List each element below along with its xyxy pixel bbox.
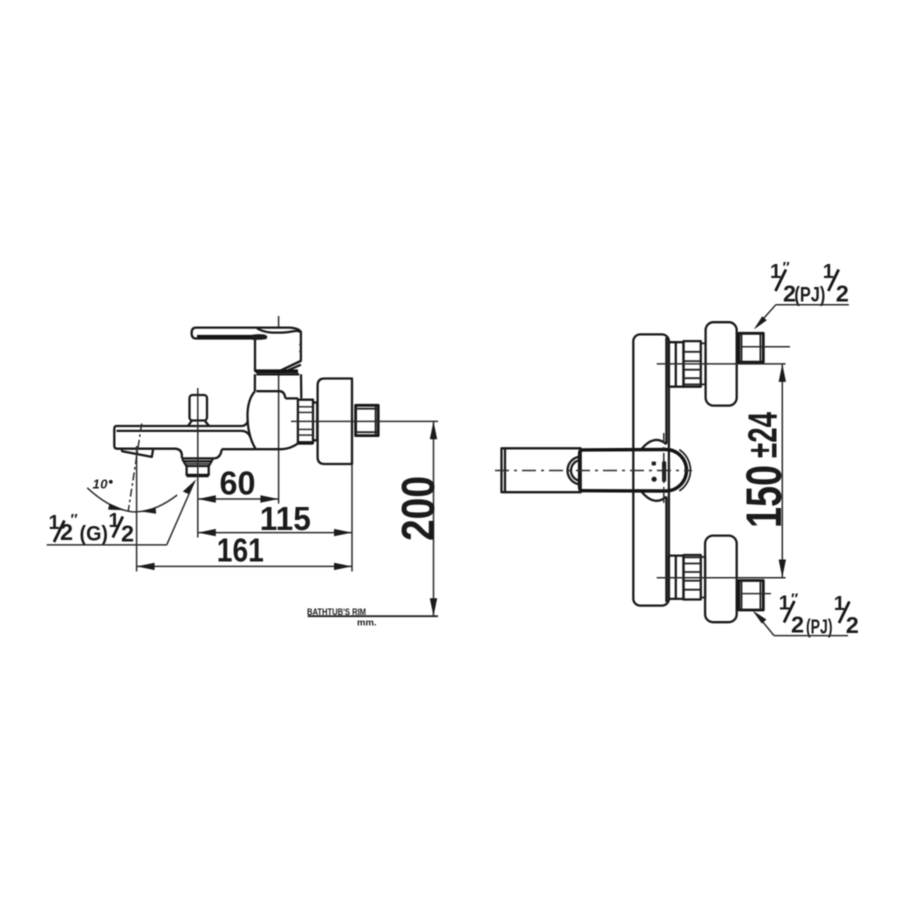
handle lever (front view) bbox=[502, 448, 581, 492]
node: bottom union centerline bbox=[657, 577, 786, 579]
svg-text:2: 2 bbox=[836, 280, 849, 306]
dash-dot centerline through handle bbox=[495, 470, 692, 472]
handle lever: underside lens curve bbox=[257, 328, 300, 332]
dimension 60 bbox=[198, 498, 279, 500]
bottom union: step connector bbox=[669, 556, 684, 599]
svg-text:BATHTUB'S RIM: BATHTUB'S RIM bbox=[307, 607, 366, 618]
top union: spacer ring bbox=[701, 343, 706, 384]
label 1/2"(PJ)1/2 (bottom union) with leader bbox=[753, 591, 859, 639]
svg-text:″: ″ bbox=[791, 591, 798, 608]
top union: step connector bbox=[669, 342, 684, 387]
wire: extension line at spout tip x=136.6 bbox=[136, 446, 138, 572]
svg-text:115: 115 bbox=[260, 500, 311, 537]
top union: hex nut bbox=[739, 333, 763, 362]
hot/cold indicator marks on cap bbox=[652, 462, 656, 466]
svg-text:150: 150 bbox=[736, 465, 792, 528]
label 1/2"(PJ)1/2 (top union) with leader bbox=[754, 259, 849, 330]
connector collar (body to wall) top edge bbox=[285, 397, 298, 399]
body inner right edge (double line) bbox=[665, 338, 667, 445]
handle body bottom bevel bbox=[280, 361, 301, 371]
node: aerator centerline / extension for 60 &amp; 115 bbox=[197, 388, 199, 538]
spout arm bottom with aerator recess bbox=[153, 449, 221, 459]
spout outlet tip bbox=[122, 449, 154, 457]
handle right edge notch bbox=[299, 345, 301, 352]
spout arm left end bbox=[114, 426, 153, 449]
spout arm top edges bbox=[117, 421, 248, 427]
cartridge housing bbox=[255, 374, 301, 398]
svg-text:10: 10 bbox=[93, 477, 109, 492]
dimension 115 bbox=[198, 532, 352, 534]
svg-text:60: 60 bbox=[220, 465, 256, 502]
spacer ring before flange bbox=[313, 403, 317, 441]
valve boss thin arc (right of cap) bbox=[679, 450, 690, 491]
svg-text:″: ″ bbox=[71, 511, 78, 528]
top union: wall flange bbox=[706, 322, 737, 405]
handle lever: thick underside of bar bbox=[197, 335, 258, 339]
bottom union: hex nut bbox=[739, 581, 763, 611]
svg-text:2: 2 bbox=[846, 612, 859, 638]
dimension 150 +/- 24 (vertical) bbox=[781, 364, 783, 578]
faucet body (front view) bbox=[633, 334, 669, 605]
svg-text:161: 161 bbox=[217, 532, 264, 569]
bottom union: knurled nut bbox=[684, 555, 701, 600]
bottom union: spacer ring bbox=[701, 557, 706, 598]
svg-text:2: 2 bbox=[121, 520, 134, 546]
dimension 161 bbox=[137, 565, 352, 567]
wire: body bottom to wall connector bottom bbox=[222, 443, 298, 449]
handle neck ring bbox=[255, 369, 298, 373]
handle pivot arcs bbox=[568, 457, 582, 485]
handle hub with round cap (thick) bbox=[580, 450, 687, 492]
svg-text:±24: ±24 bbox=[740, 412, 786, 458]
node: bottom hex nut axis bbox=[741, 593, 771, 595]
label 1/2"(G)1/2 with leader bbox=[47, 479, 197, 546]
svg-text:(G): (G) bbox=[80, 522, 109, 546]
handle lever: dark merge blob bbox=[252, 334, 267, 340]
bottom union: wall flange bbox=[705, 536, 737, 623]
diverter knob bbox=[190, 395, 208, 421]
handle lever bar bbox=[192, 328, 301, 371]
node: top union centerline bbox=[657, 363, 786, 365]
bathtub rim line bbox=[308, 615, 438, 617]
top union: knurled nut bbox=[684, 341, 701, 387]
valve boss fillet arcs into body bbox=[641, 440, 666, 501]
aerator / shower outlet under arm bbox=[183, 458, 212, 475]
faucet body (left view) bbox=[248, 391, 256, 448]
dimension 200 (vertical) bbox=[433, 421, 435, 616]
wall flange (left view) bbox=[318, 379, 352, 465]
svg-text:″: ″ bbox=[783, 259, 790, 276]
wall supply hex nut (left view) bbox=[356, 405, 379, 435]
svg-text:(PJ): (PJ) bbox=[794, 282, 825, 306]
dash-dot vertical centerline at valve bbox=[663, 433, 665, 505]
svg-text:mm.: mm. bbox=[357, 618, 377, 629]
node: top hex nut axis bbox=[741, 346, 790, 348]
knurled union nut (left view) bbox=[298, 400, 313, 443]
svg-text:200: 200 bbox=[392, 476, 444, 541]
wire: vertical projection line through handle axis x=278.6 bbox=[278, 316, 280, 504]
node: union axis centerline (left view) bbox=[291, 420, 438, 422]
wire: spout axis dash-dot (10 deg) bbox=[128, 424, 142, 512]
wire: extension line at wall face x=352 bbox=[351, 464, 353, 572]
svg-text:2: 2 bbox=[791, 612, 804, 638]
